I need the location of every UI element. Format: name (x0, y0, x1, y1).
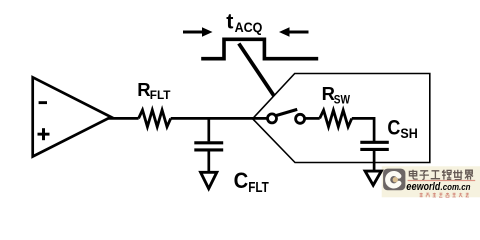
watermark tagline (vector marks) (420, 193, 469, 197)
svg-text:ee: ee (406, 181, 416, 193)
resistor R_FLT (139, 110, 171, 127)
resistor R_SW (320, 110, 352, 127)
op-amp U1 (33, 77, 111, 156)
svg-text:C: C (387, 115, 400, 139)
watermark background (382, 166, 480, 197)
svg-text:world: world (417, 181, 441, 193)
svg-text:ACQ: ACQ (235, 19, 263, 35)
left arrow (183, 27, 213, 37)
svg-text:R: R (137, 79, 150, 100)
程 (442, 170, 451, 180)
switch arm (276, 109, 297, 115)
工 (431, 171, 440, 179)
watermark title 电子工程世界 (vector strokes) (409, 170, 473, 180)
label t_ACQ (226, 10, 262, 35)
label C_FLT (234, 168, 269, 196)
label R_FLT (137, 79, 171, 102)
watermark title underline (408, 180, 476, 181)
switch left contact (268, 114, 277, 123)
svg-text:t: t (226, 10, 233, 34)
op-amp minus input label (39, 101, 47, 104)
label R_SW (322, 83, 351, 106)
wire R_FLT to switch node (through C_FLT junction) (171, 117, 268, 120)
timing pulse waveform (201, 39, 318, 58)
watermark logo (383, 169, 405, 191)
op-amp plus input label (38, 128, 50, 140)
svg-text:SH: SH (400, 126, 417, 141)
capacitor C_SH (360, 142, 389, 172)
svg-text:C: C (234, 168, 249, 193)
svg-text:.com.cn: .com.cn (441, 182, 471, 192)
watermark eeworld.com.cn (406, 181, 471, 193)
wire switch to R_SW (305, 117, 320, 120)
ground (C_SH) (365, 171, 381, 185)
ground (C_FLT) (201, 172, 217, 188)
right arrow (279, 27, 309, 37)
电 (409, 170, 417, 179)
capacitor C_FLT (194, 118, 223, 173)
switch control line from pulse (239, 44, 274, 97)
wire R_SW to C_SH (352, 118, 374, 142)
sample-hold box (253, 74, 430, 163)
switch right contact (296, 114, 305, 123)
svg-text:FLT: FLT (150, 88, 171, 102)
svg-text:SW: SW (334, 92, 351, 106)
svg-text:FLT: FLT (248, 180, 269, 196)
label C_SH (387, 115, 417, 140)
界 (465, 170, 473, 179)
wire op-amp output to R_FLT (109, 117, 139, 120)
世 (453, 170, 462, 180)
子 (420, 171, 429, 180)
